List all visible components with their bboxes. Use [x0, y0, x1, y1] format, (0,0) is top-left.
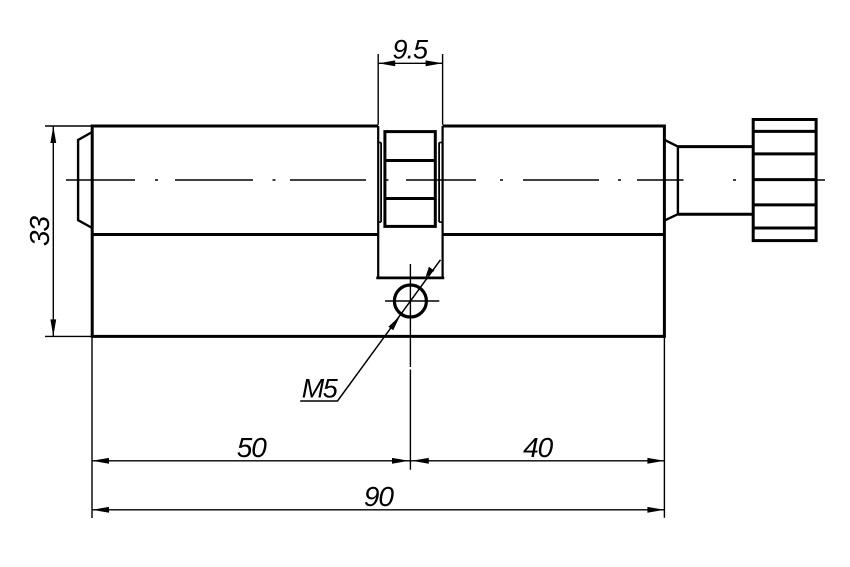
svg-text:33: 33	[24, 216, 55, 247]
svg-text:M5: M5	[302, 374, 339, 404]
svg-text:50: 50	[237, 432, 268, 463]
svg-text:9.5: 9.5	[393, 35, 430, 65]
svg-text:40: 40	[523, 432, 554, 463]
svg-text:90: 90	[364, 481, 395, 512]
